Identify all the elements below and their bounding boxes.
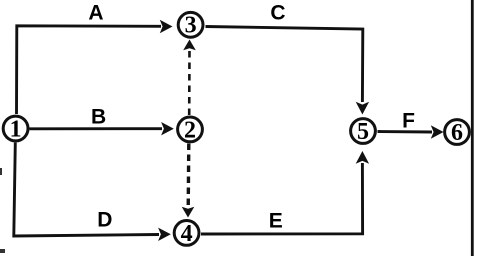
node 1 circle	[3, 116, 28, 141]
svg-text:6: 6	[451, 120, 463, 146]
dashed dummy wire node2 to node4	[186, 144, 190, 209]
wire activity C (node3 right then down to node5)	[206, 27, 363, 103]
svg-text:3: 3	[185, 13, 197, 39]
edge artifact left bottom	[0, 249, 5, 253]
frame border right edge	[471, 0, 474, 256]
svg-text:C: C	[270, 2, 285, 25]
svg-text:E: E	[269, 210, 283, 233]
node 6 circle	[445, 120, 470, 145]
svg-text:2: 2	[184, 117, 196, 143]
svg-text:D: D	[97, 209, 112, 232]
arrowhead B into node2	[161, 122, 174, 135]
arrowhead A into node3	[160, 20, 173, 33]
wire activity A (node1 up then right to node3)	[17, 26, 162, 114]
svg-text:A: A	[88, 2, 103, 25]
wire activity E (node4 right then up to node5)	[201, 163, 363, 234]
wire activity F (node5 right to node6)	[378, 130, 433, 133]
svg-text:5: 5	[357, 119, 369, 145]
node 5 circle	[351, 119, 376, 144]
dashed dummy wire node2 to node3	[188, 48, 191, 115]
svg-text:4: 4	[181, 221, 193, 247]
node 3 circle	[178, 12, 203, 37]
node 4 circle	[174, 221, 199, 246]
svg-text:B: B	[91, 105, 106, 128]
svg-text:1: 1	[10, 116, 22, 142]
wire activity B (node1 right to node2)	[30, 127, 163, 130]
edge artifact left upper	[0, 168, 2, 175]
wire activity D (node1 down then right to node4)	[14, 143, 159, 237]
arrowhead dummy into node3	[183, 40, 196, 51]
arrowhead dummy into node4	[182, 207, 195, 218]
arrowhead C into node5	[356, 102, 369, 115]
arrowhead F into node6	[431, 125, 444, 138]
node 2 circle	[178, 117, 203, 142]
arrowhead E into node5	[356, 151, 369, 164]
svg-text:F: F	[402, 110, 415, 133]
arrowhead D into node4	[158, 228, 171, 241]
